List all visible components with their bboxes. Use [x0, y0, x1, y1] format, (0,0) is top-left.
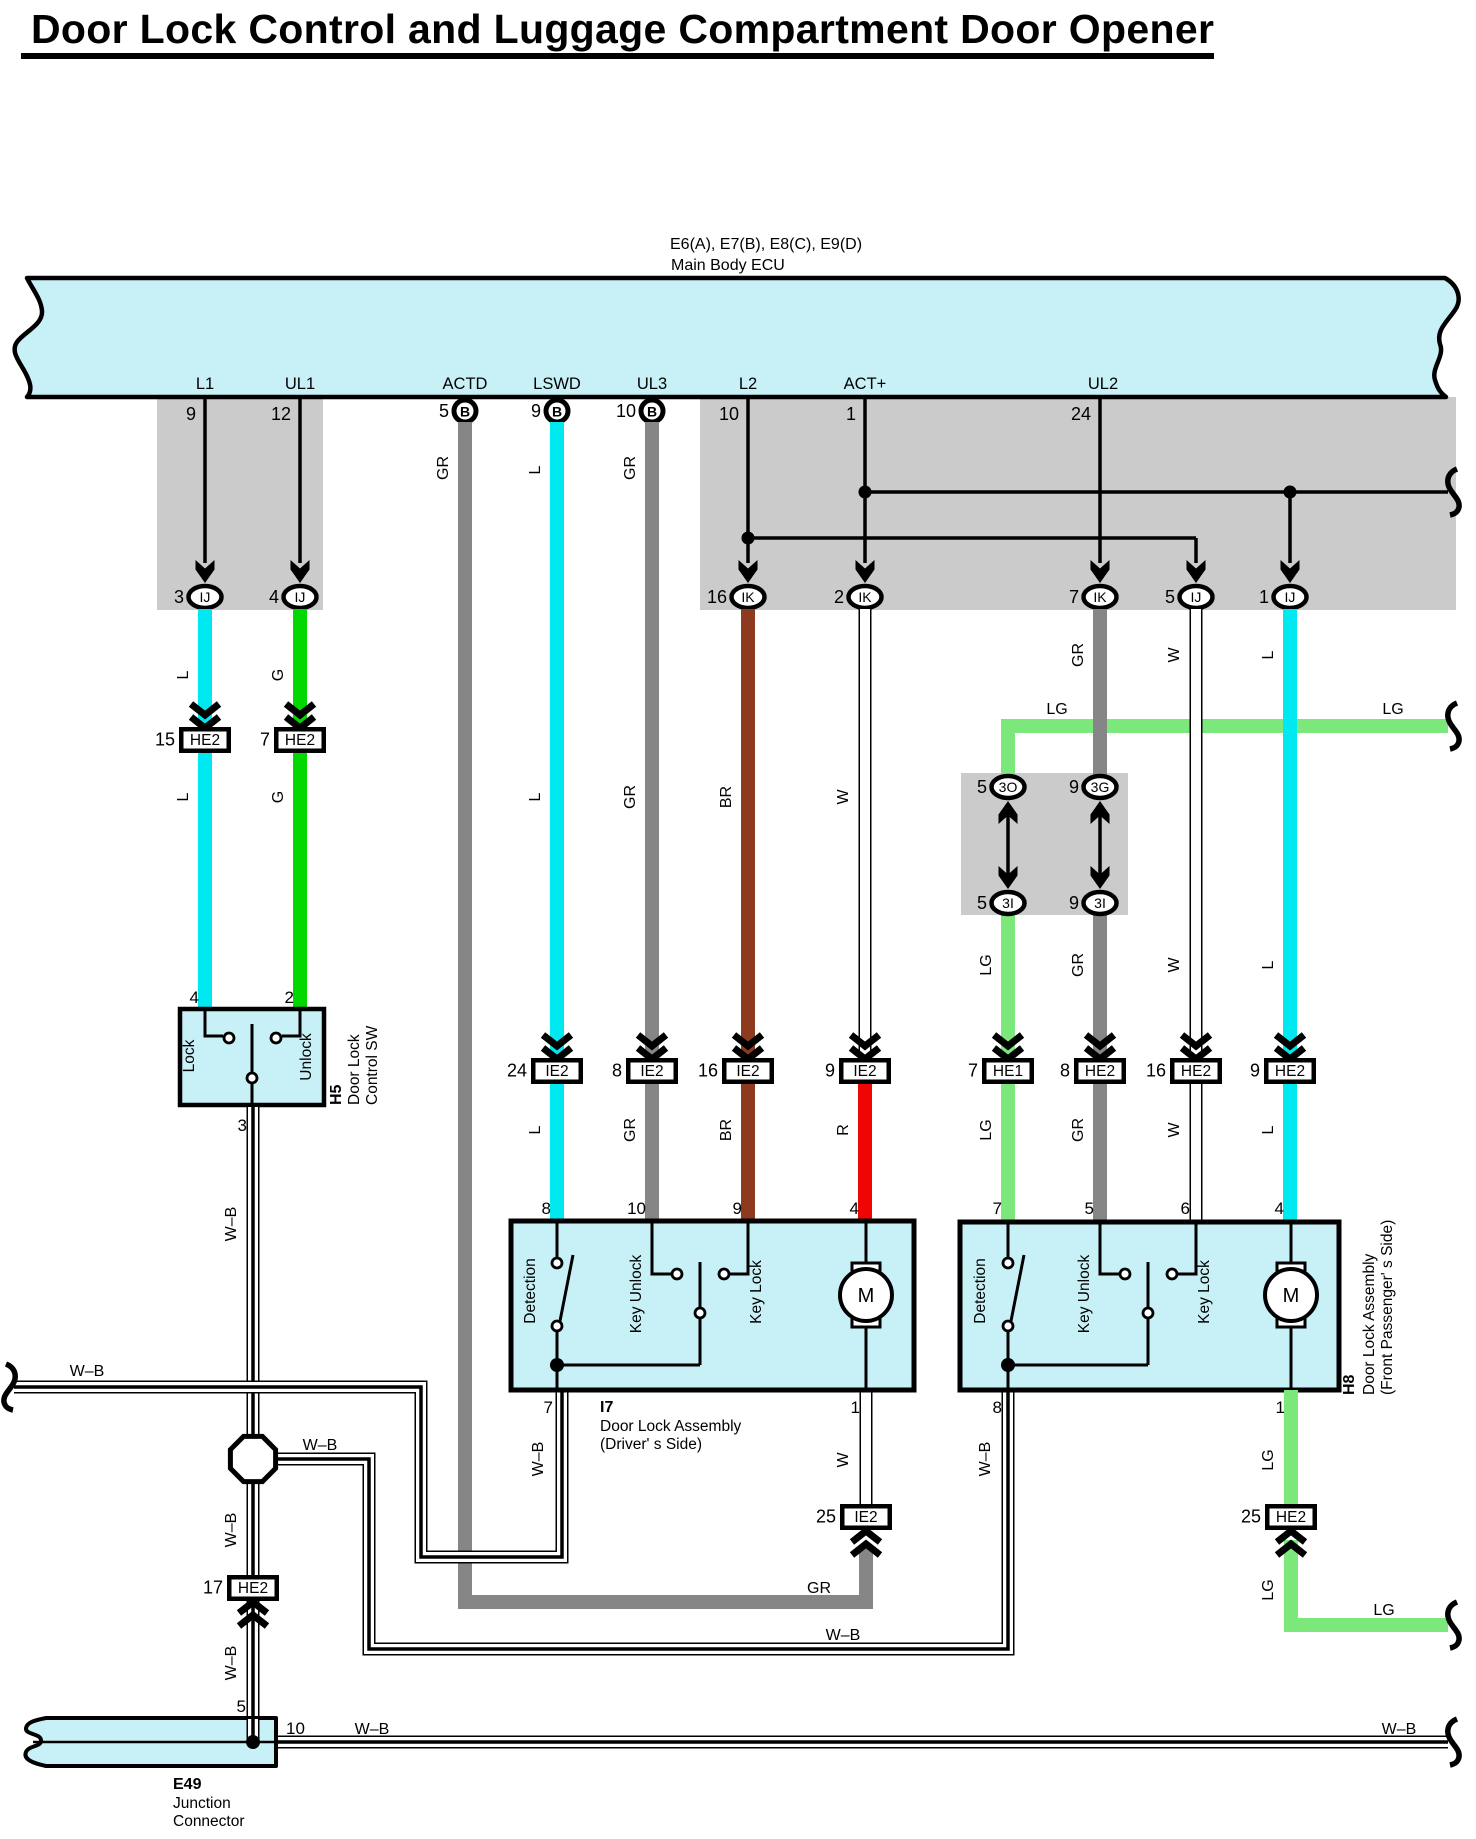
arrow into connector	[1091, 560, 1110, 583]
svg-text:UL1: UL1	[285, 375, 315, 393]
svg-text:IJ: IJ	[1191, 589, 1202, 605]
wire G green from 4 IJ to door lock control SW	[293, 609, 307, 1011]
svg-text:IJ: IJ	[200, 589, 211, 605]
connector oval IK pin 2	[849, 586, 882, 608]
svg-text:Control SW: Control SW	[364, 1025, 381, 1105]
svg-text:6: 6	[1181, 1199, 1190, 1218]
svg-text:3I: 3I	[1002, 895, 1014, 911]
svg-text:GR: GR	[1070, 643, 1087, 667]
wire horizontal net ACT+ branch	[865, 490, 1448, 494]
svg-text:(Front Passenger' s Side): (Front Passenger' s Side)	[1379, 1220, 1396, 1395]
arrow chevron into HE2 pin 7	[286, 717, 314, 728]
connector oval IJ pin 4	[284, 586, 317, 608]
svg-text:10: 10	[627, 1199, 646, 1218]
connector oval 3O pin 5	[992, 776, 1025, 798]
arrow chevron into IE2 pin 9	[851, 1048, 879, 1059]
arrow into connector	[739, 560, 758, 583]
arrow chevron into HE2 pin 15	[191, 717, 219, 728]
svg-text:L: L	[1260, 650, 1277, 659]
svg-text:Detection: Detection	[972, 1258, 989, 1323]
connector box HE2 pin 17	[229, 1577, 277, 1599]
wire ECU pin UL2 down	[1098, 397, 1102, 563]
motor M passenger side	[1290, 1224, 1293, 1266]
svg-text:3I: 3I	[1094, 895, 1106, 911]
svg-text:10: 10	[286, 1719, 305, 1738]
arrow chevron into HE2 pin 8	[1086, 1048, 1114, 1059]
svg-text:4: 4	[190, 988, 199, 1007]
switch H5 Door Lock Control SW body	[180, 1009, 324, 1105]
svg-text:IE2: IE2	[854, 1509, 877, 1526]
svg-text:HE2: HE2	[285, 732, 315, 749]
svg-text:HE2: HE2	[1275, 1063, 1305, 1080]
svg-text:UL3: UL3	[637, 375, 667, 393]
wire GR from UL3 to driver door lock assembly pin 10	[645, 422, 659, 1223]
svg-text:4: 4	[269, 587, 279, 607]
svg-text:1: 1	[1276, 1398, 1285, 1417]
wire LG from passenger assembly pin 1 to HE2 25	[1284, 1390, 1298, 1506]
shaded region 3O 3G 3I connector group	[961, 773, 1128, 915]
H5 lock contact wiring	[205, 1011, 223, 1036]
junction connector E49 body	[25, 1718, 276, 1766]
wire L from LSWD to driver door lock assembly pin 8	[550, 422, 564, 1223]
svg-text:Key Lock: Key Lock	[748, 1260, 765, 1324]
svg-text:IE2: IE2	[853, 1063, 876, 1080]
junction dot on E49 bus	[246, 1735, 260, 1749]
svg-text:24: 24	[1071, 404, 1091, 424]
svg-text:W: W	[1166, 957, 1183, 973]
svg-text:Unlock: Unlock	[298, 1033, 315, 1081]
I7 detection switch	[556, 1223, 559, 1258]
svg-text:HE2: HE2	[238, 1580, 268, 1597]
svg-text:IJ: IJ	[295, 589, 306, 605]
connector oval 3I pin 9	[1084, 892, 1117, 914]
svg-text:5: 5	[977, 893, 987, 913]
svg-text:3: 3	[238, 1116, 247, 1135]
svg-text:W–B: W–B	[977, 1442, 994, 1477]
svg-text:HE1: HE1	[993, 1063, 1023, 1080]
wire LG from 5 3I to HE1 and passenger assembly pin 7	[1001, 915, 1015, 1224]
svg-text:LG: LG	[1260, 1579, 1277, 1600]
break squiggle left end of W-B	[4, 1364, 15, 1410]
H8 detection switch	[1007, 1224, 1010, 1258]
svg-text:LG: LG	[1260, 1449, 1277, 1470]
svg-text:5: 5	[439, 401, 449, 421]
H5 common pole blade	[251, 1024, 254, 1072]
svg-text:9: 9	[531, 401, 541, 421]
svg-text:16: 16	[1146, 1061, 1166, 1081]
svg-text:7: 7	[544, 1398, 553, 1417]
connector box IE2 pin 24	[533, 1060, 581, 1082]
connector circle B pin 10	[641, 400, 663, 422]
title underline	[21, 53, 1214, 59]
junction dot branch to 1 IJ	[1284, 486, 1297, 499]
svg-text:ACTD: ACTD	[443, 375, 488, 393]
arrow chevron into HE2 pin 16	[1182, 1048, 1210, 1059]
connector box HE2 pin 15	[181, 729, 229, 751]
wire W-B from junction connector to passenger assembly pin 8	[276, 1392, 1008, 1649]
wire W-B from H5 pin 3 down to junction connector	[247, 1107, 260, 1577]
svg-text:GR: GR	[622, 785, 639, 809]
connector box IE2 pin 16	[724, 1060, 772, 1082]
arrow chevron up into IE2 25	[852, 1531, 880, 1542]
svg-text:Key Unlock: Key Unlock	[628, 1255, 645, 1334]
svg-text:8: 8	[993, 1398, 1002, 1417]
connector oval IJ pin 3	[189, 586, 222, 608]
svg-text:B: B	[647, 404, 657, 420]
connector box HE1 pin 7	[984, 1060, 1032, 1082]
svg-text:1: 1	[846, 404, 856, 424]
connector box IE2 pin 25	[842, 1506, 890, 1528]
svg-text:W–B: W–B	[223, 1646, 240, 1681]
svg-text:IE2: IE2	[545, 1063, 568, 1080]
svg-text:W: W	[835, 1452, 852, 1468]
arrow chevron into IE2 pin 24	[543, 1048, 571, 1059]
wire W-B from HE2 17 down to E49	[247, 1601, 260, 1720]
svg-text:IE2: IE2	[640, 1063, 663, 1080]
connector oval 3I pin 5	[992, 892, 1025, 914]
svg-text:BR: BR	[718, 1119, 735, 1141]
svg-text:GR: GR	[807, 1580, 831, 1597]
svg-text:GR: GR	[1070, 953, 1087, 977]
svg-text:8: 8	[1060, 1061, 1070, 1081]
wire LG from chevron to right edge	[1291, 1540, 1448, 1625]
svg-text:HE2: HE2	[1181, 1063, 1211, 1080]
connector box IE2 pin 9	[841, 1060, 889, 1082]
connector box HE2 pin 7	[276, 729, 324, 751]
svg-text:W: W	[835, 789, 852, 805]
svg-text:25: 25	[816, 1507, 836, 1527]
svg-text:L: L	[175, 670, 192, 679]
svg-text:Key Unlock: Key Unlock	[1076, 1255, 1093, 1334]
svg-text:9: 9	[733, 1199, 742, 1218]
svg-text:Door Lock Control and Luggage: Door Lock Control and Luggage Compartmen…	[31, 6, 1214, 52]
svg-text:Junction: Junction	[173, 1795, 231, 1812]
svg-text:12: 12	[271, 404, 291, 424]
svg-text:Main Body ECU: Main Body ECU	[671, 257, 785, 274]
break squiggle right end of ACT+ net	[1448, 469, 1459, 515]
svg-text:3O: 3O	[999, 779, 1018, 795]
svg-text:HE2: HE2	[1085, 1063, 1115, 1080]
svg-text:7: 7	[1069, 587, 1079, 607]
arrow into connector	[291, 560, 310, 583]
svg-text:L1: L1	[196, 375, 214, 393]
svg-text:5: 5	[237, 1697, 246, 1716]
wire L from 1 IJ to passenger assembly pin 4	[1283, 609, 1297, 1224]
svg-text:L: L	[527, 1125, 544, 1134]
svg-text:W: W	[1166, 647, 1183, 663]
shaded region right connector group	[700, 397, 1456, 610]
svg-text:B: B	[552, 404, 562, 420]
switch I7 Door Lock Assembly driver side body	[511, 1221, 914, 1390]
wire ECU pin UL1 down	[298, 397, 302, 563]
svg-text:LG: LG	[1046, 701, 1067, 718]
H8 key switch blade	[1147, 1262, 1150, 1308]
H8 key lock contact	[1178, 1224, 1196, 1274]
svg-text:BR: BR	[718, 786, 735, 808]
connector box HE2 pin 16	[1172, 1060, 1220, 1082]
svg-text:4: 4	[850, 1199, 859, 1218]
svg-text:IK: IK	[858, 589, 872, 605]
svg-text:W–B: W–B	[355, 1721, 390, 1738]
svg-text:24: 24	[507, 1061, 527, 1081]
break squiggle right end of lower LG	[1448, 1602, 1459, 1648]
wire ECU pin L1 down	[203, 397, 207, 563]
junction dot L2 node	[742, 532, 755, 545]
svg-text:Door Lock Assembly: Door Lock Assembly	[600, 1418, 742, 1435]
svg-text:LSWD: LSWD	[533, 375, 581, 393]
svg-text:L: L	[175, 792, 192, 801]
svg-text:LG: LG	[1382, 701, 1403, 718]
wire W from 2 IK to IE2 pin 9	[859, 609, 872, 1058]
junction dot ACT+ node	[859, 486, 872, 499]
svg-text:7: 7	[260, 730, 270, 750]
svg-text:16: 16	[707, 587, 727, 607]
svg-text:IK: IK	[741, 589, 755, 605]
svg-text:R: R	[835, 1124, 852, 1136]
H8 detection junction dot	[1001, 1358, 1015, 1372]
svg-text:8: 8	[542, 1199, 551, 1218]
switch H8 Door Lock Assembly front passenger side body	[960, 1222, 1339, 1390]
I7 key switch blade	[699, 1262, 702, 1308]
svg-text:7: 7	[993, 1199, 1002, 1218]
svg-text:GR: GR	[435, 456, 452, 480]
svg-text:M: M	[858, 1285, 875, 1307]
svg-text:E6(A), E7(B), E8(C), E9(D): E6(A), E7(B), E8(C), E9(D)	[670, 236, 862, 253]
svg-text:5: 5	[1085, 1199, 1094, 1218]
svg-text:W–B: W–B	[70, 1363, 105, 1380]
arrow chevron into IE2 pin 8	[638, 1048, 666, 1059]
svg-text:Key Lock: Key Lock	[1196, 1260, 1213, 1324]
arrow chevron up into HE2 17	[239, 1602, 267, 1613]
svg-text:9: 9	[186, 404, 196, 424]
svg-text:M: M	[1283, 1285, 1300, 1307]
svg-text:IJ: IJ	[1285, 589, 1296, 605]
svg-text:10: 10	[719, 404, 739, 424]
svg-text:Door Lock Assembly: Door Lock Assembly	[1361, 1253, 1378, 1395]
svg-text:8: 8	[612, 1061, 622, 1081]
svg-text:E49: E49	[173, 1776, 202, 1793]
svg-text:L: L	[527, 792, 544, 801]
svg-text:L: L	[1260, 960, 1277, 969]
wire BR from 16 IK to driver door lock assembly pin 9	[741, 609, 755, 1223]
svg-text:GR: GR	[622, 1118, 639, 1142]
svg-text:GR: GR	[622, 456, 639, 480]
svg-text:3G: 3G	[1091, 779, 1110, 795]
svg-text:G: G	[270, 669, 287, 681]
connector oval IK pin 16	[732, 586, 765, 608]
wire W from 5 IJ to passenger assembly pin 6	[1190, 609, 1203, 1224]
svg-text:2: 2	[834, 587, 844, 607]
wire W-B from E49 to right edge	[278, 1736, 1448, 1749]
break squiggle right end of bottom W-B	[1448, 1719, 1459, 1765]
Main Body ECU block	[15, 278, 1459, 397]
wire branch down to 5 IJ	[1194, 538, 1198, 563]
svg-text:I7: I7	[600, 1399, 613, 1416]
svg-text:H5: H5	[328, 1084, 345, 1105]
double arrow between junction connectors	[1006, 805, 1010, 885]
shaded region left connector group	[157, 397, 323, 610]
svg-text:H8: H8	[1341, 1374, 1358, 1395]
I7 key unlock contact	[652, 1223, 671, 1274]
connector oval IJ pin 5	[1180, 586, 1213, 608]
svg-text:9: 9	[1250, 1061, 1260, 1081]
svg-text:W–B: W–B	[223, 1513, 240, 1548]
svg-text:W–B: W–B	[303, 1437, 338, 1454]
svg-text:15: 15	[155, 730, 175, 750]
wire branch down to 1 IJ	[1288, 492, 1292, 563]
connector box HE2 pin 25	[1267, 1506, 1315, 1528]
svg-text:W: W	[1166, 1122, 1183, 1138]
arrow chevron into HE1 pin 7	[994, 1048, 1022, 1059]
svg-text:4: 4	[1275, 1199, 1284, 1218]
svg-text:HE2: HE2	[1276, 1509, 1306, 1526]
I7 common link	[557, 1364, 700, 1367]
H5 unlock contact wiring	[282, 1011, 300, 1036]
connector circle B pin 9	[546, 400, 568, 422]
octagon junction of W-B wires	[230, 1436, 275, 1481]
wire ECU pin ACT+ down	[863, 397, 867, 563]
H8 key unlock contact	[1100, 1224, 1119, 1274]
arrow chevron into IE2 pin 16	[734, 1048, 762, 1059]
wire GR from 7 IK to 9 3G	[1093, 609, 1107, 775]
wire L cyan from 3 IJ to door lock control SW	[198, 609, 212, 1011]
svg-text:7: 7	[968, 1061, 978, 1081]
svg-text:5: 5	[977, 777, 987, 797]
motor M driver side	[865, 1223, 868, 1266]
double arrow between junction connectors	[1098, 805, 1102, 885]
svg-text:16: 16	[698, 1061, 718, 1081]
wire LG horizontal to right edge	[1008, 726, 1448, 774]
wire W-B from left break to driver assembly pin 7	[14, 1387, 562, 1557]
svg-text:Detection: Detection	[522, 1258, 539, 1323]
svg-text:(Driver' s Side): (Driver' s Side)	[600, 1436, 702, 1453]
svg-text:W–B: W–B	[1382, 1721, 1417, 1738]
arrow into connector	[196, 560, 215, 583]
svg-text:W–B: W–B	[530, 1442, 547, 1477]
svg-text:25: 25	[1241, 1507, 1261, 1527]
wire horizontal net L2 branch	[748, 536, 1196, 540]
break squiggle right end of LG	[1448, 703, 1459, 749]
arrow into connector	[856, 560, 875, 583]
I7 key lock contact	[730, 1223, 748, 1274]
svg-text:ACT+: ACT+	[844, 375, 887, 393]
svg-text:5: 5	[1165, 587, 1175, 607]
arrow chevron up into HE2 25	[1277, 1531, 1305, 1542]
wire GR from ACTD to IE2 pin 25 (staircase)	[465, 422, 866, 1602]
svg-text:IK: IK	[1093, 589, 1107, 605]
wire GR from 9 3I to passenger assembly pin 5	[1093, 915, 1107, 1224]
svg-text:B: B	[460, 404, 470, 420]
svg-text:W–B: W–B	[826, 1627, 861, 1644]
svg-text:2: 2	[285, 988, 294, 1007]
I7 detection junction dot	[550, 1358, 564, 1372]
wire R from IE2 to driver door lock assembly pin 4	[858, 1084, 872, 1223]
connector box IE2 pin 8	[628, 1060, 676, 1082]
wire W-B stub inside E49	[247, 1719, 260, 1742]
svg-text:G: G	[270, 791, 287, 803]
svg-text:3: 3	[174, 587, 184, 607]
connector box HE2 pin 8	[1076, 1060, 1124, 1082]
svg-text:9: 9	[1069, 893, 1079, 913]
arrow into connector	[1281, 560, 1300, 583]
svg-text:LG: LG	[978, 1119, 995, 1140]
svg-text:1: 1	[851, 1398, 860, 1417]
svg-text:9: 9	[1069, 777, 1079, 797]
svg-text:L: L	[1260, 1125, 1277, 1134]
svg-text:UL2: UL2	[1088, 375, 1118, 393]
svg-text:LG: LG	[978, 954, 995, 975]
svg-text:L: L	[527, 465, 544, 474]
connector oval IK pin 7	[1084, 586, 1117, 608]
svg-text:1: 1	[1259, 587, 1269, 607]
svg-text:Lock: Lock	[181, 1039, 198, 1072]
wire W from driver assembly pin 1 to IE2 pin 25	[860, 1390, 873, 1506]
H8 common link	[1008, 1364, 1148, 1367]
svg-text:9: 9	[825, 1061, 835, 1081]
svg-text:HE2: HE2	[190, 732, 220, 749]
svg-text:GR: GR	[1070, 1118, 1087, 1142]
svg-text:L2: L2	[739, 375, 757, 393]
svg-text:W–B: W–B	[223, 1207, 240, 1242]
E49 internal bus	[33, 1741, 276, 1744]
connector oval IJ pin 1	[1274, 586, 1307, 608]
wire ECU pin L2 down	[746, 397, 750, 563]
svg-text:IE2: IE2	[736, 1063, 759, 1080]
arrow into connector	[1187, 560, 1206, 583]
svg-text:Door Lock: Door Lock	[346, 1034, 363, 1105]
arrow chevron into HE2 pin 9	[1276, 1048, 1304, 1059]
connector oval 3G pin 9	[1084, 776, 1117, 798]
connector circle B pin 5	[454, 400, 476, 422]
svg-text:LG: LG	[1373, 1602, 1394, 1619]
svg-text:10: 10	[616, 401, 636, 421]
svg-text:17: 17	[203, 1578, 223, 1598]
connector box HE2 pin 9	[1266, 1060, 1314, 1082]
svg-text:Connector: Connector	[173, 1813, 245, 1830]
